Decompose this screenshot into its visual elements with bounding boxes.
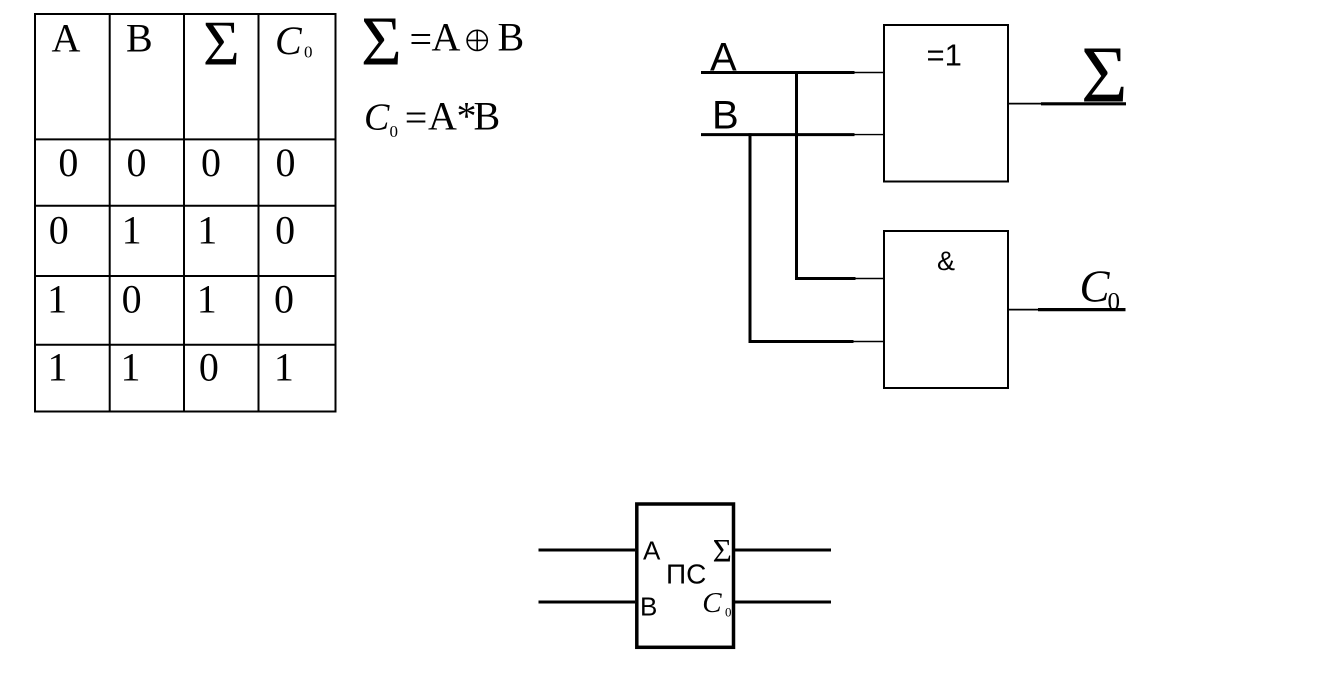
half-adder block PS box xyxy=(637,504,734,647)
svg-text:0: 0 xyxy=(127,140,147,185)
XOR gate U1 box xyxy=(884,25,1008,182)
svg-text:1: 1 xyxy=(121,345,141,390)
svg-text:0: 0 xyxy=(304,43,313,62)
table header cell C0 xyxy=(275,18,313,63)
wire B stub to XOR input pin xyxy=(855,134,885,136)
wire A stub to XOR input pin xyxy=(855,72,885,74)
svg-text:A: A xyxy=(643,536,661,566)
formula Sigma = A xor B xyxy=(361,4,524,81)
PS output wire Sigma xyxy=(735,549,831,552)
svg-text:Σ: Σ xyxy=(713,534,732,570)
svg-text:0: 0 xyxy=(1108,289,1121,316)
svg-text:1: 1 xyxy=(47,277,67,322)
wire B horizontal thick xyxy=(701,133,855,136)
svg-text:1: 1 xyxy=(122,208,142,253)
svg-text:=: = xyxy=(405,95,428,140)
svg-text:1: 1 xyxy=(197,208,217,253)
svg-text:1: 1 xyxy=(197,277,217,322)
table row 2 values 0 1 1 0 xyxy=(49,208,295,253)
svg-text:1: 1 xyxy=(274,345,294,390)
table row divider 3 xyxy=(35,275,336,277)
PS input wire B xyxy=(539,601,636,604)
wire B branch stub to AND input pin xyxy=(854,341,885,343)
wire XOR output thick xyxy=(1041,102,1126,105)
wire AND output thick xyxy=(1038,308,1126,311)
table row 3 values 1 0 1 0 xyxy=(47,277,294,322)
svg-text:0: 0 xyxy=(49,208,69,253)
table row divider 4 xyxy=(35,344,336,346)
svg-text:C: C xyxy=(1080,262,1111,312)
wire B branch vertical xyxy=(749,133,752,341)
PS pin label C0 xyxy=(702,587,731,620)
svg-text:B: B xyxy=(498,15,525,60)
svg-text:B: B xyxy=(126,16,153,61)
table column divider 1 xyxy=(109,14,111,412)
svg-text:0: 0 xyxy=(122,277,142,322)
svg-text:0: 0 xyxy=(201,140,221,185)
wire A horizontal thick xyxy=(701,71,855,74)
svg-text:ПС: ПС xyxy=(666,559,706,590)
wire A branch vertical xyxy=(795,71,798,279)
wire A branch stub to AND input pin xyxy=(856,278,885,280)
svg-text:0: 0 xyxy=(275,208,295,253)
svg-text:0: 0 xyxy=(276,140,296,185)
wire B branch horizontal to AND xyxy=(749,340,854,343)
table column divider 3 xyxy=(258,14,260,412)
svg-text:0: 0 xyxy=(725,605,732,620)
svg-text:A: A xyxy=(432,15,461,60)
svg-text:B: B xyxy=(640,592,657,622)
svg-text:Σ: Σ xyxy=(203,9,240,79)
svg-text:0: 0 xyxy=(274,277,294,322)
table row divider 1 xyxy=(35,138,336,140)
output label C0 xyxy=(1080,262,1121,316)
svg-text:Σ: Σ xyxy=(361,4,402,81)
svg-text:B: B xyxy=(474,94,501,139)
table row 1 values 0 0 0 0 xyxy=(58,140,295,185)
wire A branch horizontal to AND xyxy=(795,277,856,280)
svg-text:C: C xyxy=(275,18,303,63)
svg-text:Σ: Σ xyxy=(1081,32,1128,120)
svg-text:0: 0 xyxy=(390,122,399,141)
svg-text:A: A xyxy=(428,94,457,139)
PS output wire C0 xyxy=(735,601,831,604)
svg-text:C: C xyxy=(364,97,390,139)
truth table outer border xyxy=(35,14,336,412)
svg-text:&: & xyxy=(937,246,955,276)
svg-text:1: 1 xyxy=(48,345,68,390)
svg-text:A: A xyxy=(52,16,81,61)
table row divider 2 xyxy=(35,205,336,207)
svg-text:=1: =1 xyxy=(927,38,962,73)
svg-text:0: 0 xyxy=(199,345,219,390)
wire AND output thin xyxy=(1008,309,1038,311)
svg-text:C: C xyxy=(702,587,722,619)
AND gate U2 box xyxy=(884,231,1008,388)
svg-text:0: 0 xyxy=(58,140,78,185)
wire XOR output thin xyxy=(1008,103,1041,105)
table column divider 2 xyxy=(183,14,185,412)
formula C0 = A*B xyxy=(364,94,500,142)
svg-text:=: = xyxy=(410,17,433,62)
PS input wire A xyxy=(539,549,636,552)
svg-text:B: B xyxy=(712,94,739,138)
table row 4 values 1 1 0 1 xyxy=(48,345,294,390)
